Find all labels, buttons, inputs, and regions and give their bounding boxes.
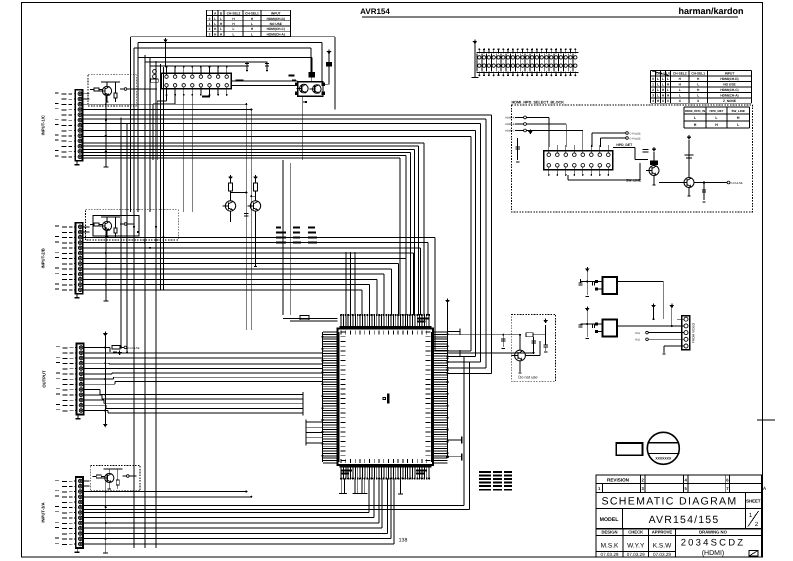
wire bus top-left nest	[131, 37, 335, 110]
title block schematic diagram	[596, 492, 762, 508]
svg-text:HDMI-B: HDMI-B	[505, 123, 514, 126]
capacitors U2	[578, 267, 597, 297]
svg-text:L: L	[657, 83, 659, 87]
svg-text:H: H	[737, 116, 740, 120]
IC U1 top pins	[340, 314, 432, 335]
svg-text:L: L	[657, 77, 659, 81]
junction dots bus	[133, 226, 165, 249]
svg-text:1: 1	[652, 83, 654, 87]
wire P1 upper pin stubs	[83, 89, 340, 115]
svg-text:R51: R51	[635, 332, 640, 335]
IC U1 center mark	[383, 394, 389, 403]
svg-text:07.03.29: 07.03.29	[627, 552, 645, 557]
terminal stubs left of U1	[306, 419, 323, 445]
connector J3 HPD header	[544, 145, 613, 176]
svg-text:2: 2	[209, 27, 211, 31]
wire bus P2 to U1	[83, 227, 448, 352]
svg-text:SCHEMATIC DIAGRAM: SCHEMATIC DIAGRAM	[601, 496, 737, 508]
wire Q5 Q6 bases	[231, 191, 256, 216]
svg-text:L: L	[214, 22, 216, 26]
svg-text:HDMI(CH-C): HDMI(CH-C)	[267, 27, 285, 31]
svg-text:L: L	[679, 94, 681, 98]
wire J2 pin drops	[153, 96, 192, 213]
detect box D2 (P2 input detect)	[86, 210, 179, 240]
svg-text:L: L	[667, 88, 669, 92]
svg-text:CH-SEL1: CH-SEL1	[245, 12, 259, 16]
wire into do-not-use	[448, 334, 521, 336]
svg-text:APPROVE: APPROVE	[652, 530, 673, 535]
header rule	[362, 16, 738, 18]
svg-text:SW_LINE: SW_LINE	[732, 109, 745, 113]
connector P2 INPUT-2/B	[41, 223, 83, 298]
resistor R above Q box	[309, 73, 315, 82]
svg-text:HDMI-C: HDMI-C	[505, 130, 514, 133]
svg-text:REVISION: REVISION	[607, 478, 630, 483]
transistor Q3 HPD	[646, 147, 659, 185]
connector P3 OUTPUT	[42, 344, 84, 419]
svg-text:INPUT-1/C: INPUT-1/C	[40, 115, 45, 135]
wire stubs below U1	[0, 0, 1, 1]
capacitor C HPD2	[702, 181, 706, 202]
wire verticals below U1	[339, 479, 403, 495]
connector P1 INPUT-1/C	[40, 90, 82, 165]
svg-text:W.Y.Y: W.Y.Y	[627, 543, 645, 550]
capacitor C HPD	[515, 138, 519, 162]
svg-text:DESIGN: DESIGN	[601, 530, 617, 535]
svg-text:L: L	[233, 33, 235, 37]
svg-text:C-PULSE: C-PULSE	[630, 132, 642, 135]
svg-text:07.03.29: 07.03.29	[653, 552, 671, 557]
svg-text:SW_LINE: SW_LINE	[626, 179, 642, 183]
svg-text:OUTPUT: OUTPUT	[42, 370, 47, 388]
wire SW_LINE route	[568, 163, 640, 180]
svg-text:L: L	[667, 77, 669, 81]
svg-text:harman/kardon: harman/kardon	[678, 6, 743, 16]
resistor R near J2 right	[202, 81, 244, 97]
capacitor small left of Q box	[289, 75, 295, 77]
connector P4 INPUT-3/A	[41, 477, 83, 552]
wire gnd bus P4	[103, 481, 108, 553]
transistor Q4 HPD	[659, 135, 743, 196]
capacitors U3	[578, 307, 597, 339]
wire mid verticals	[246, 104, 290, 330]
svg-text:HDMI(CH-D): HDMI(CH-D)	[267, 17, 285, 21]
svg-text:INPUT: INPUT	[271, 12, 281, 16]
svg-text:0: 0	[652, 77, 654, 81]
svg-text:AVR154/155: AVR154/155	[649, 514, 720, 526]
transistor array Q1/Q2 box	[295, 82, 324, 96]
power arrow above J2	[163, 38, 168, 67]
svg-text:SHEET: SHEET	[746, 499, 761, 504]
svg-text:L: L	[214, 17, 216, 21]
svg-text:NO USE: NO USE	[723, 83, 735, 87]
svg-text:(HDMI): (HDMI)	[702, 549, 725, 557]
wire gnd bus P2	[103, 227, 108, 301]
do not use dashed box	[511, 315, 555, 382]
wire bus P1 to U1	[83, 115, 491, 375]
svg-text:4: 4	[652, 99, 654, 103]
IC U1 left pins	[323, 332, 346, 463]
transistor Q6	[247, 175, 260, 267]
C-PULSE output flags	[592, 132, 641, 147]
svg-text:HDMI(CH-D): HDMI(CH-D)	[720, 77, 738, 81]
svg-text:L: L	[233, 27, 235, 31]
svg-text:K.S.W: K.S.W	[653, 543, 672, 550]
power arrow Q box	[324, 50, 331, 85]
terminal stubs right of U1	[448, 329, 461, 357]
table truth-table CH-SEL top-left	[207, 10, 291, 36]
svg-text:H: H	[715, 123, 718, 127]
svg-text:138: 138	[399, 538, 408, 544]
svg-text:Do not use: Do not use	[518, 375, 538, 380]
stamp rectangle	[616, 443, 642, 455]
detect box D1 (P1 input detect)	[88, 75, 136, 106]
svg-text:Z_NONE: Z_NONE	[723, 99, 736, 103]
svg-text:C-PULSE: C-PULSE	[630, 137, 642, 140]
wire HPD_DET route	[613, 148, 648, 160]
title block approvals	[596, 529, 762, 557]
connector J4 FROM VIDEO	[677, 316, 696, 350]
svg-text:C-PULSE: C-PULSE	[128, 346, 140, 350]
capacitor HPD mid	[643, 150, 649, 153]
svg-text:INPUT-2/B: INPUT-2/B	[41, 248, 46, 268]
wire U2 to J4	[622, 282, 663, 320]
capacitor left of do-not-use	[501, 334, 505, 349]
capacitor near do-not-use left	[531, 337, 535, 353]
wire Q box bottom	[292, 80, 307, 160]
wire bus P4 to U1	[83, 356, 469, 544]
power arrow JP	[473, 40, 478, 45]
svg-text:L: L	[220, 27, 222, 31]
svg-text:3: 3	[209, 33, 211, 37]
svg-text:H: H	[694, 123, 697, 127]
note text below U1	[479, 471, 512, 491]
svg-text:L: L	[697, 83, 699, 87]
table HPD logic	[684, 107, 750, 128]
svg-text:HPD_DET: HPD_DET	[709, 109, 723, 113]
svg-text:CHECK: CHECK	[628, 530, 643, 535]
svg-text:HDMI_HPD_SELECT_BLOCK: HDMI_HPD_SELECT_BLOCK	[512, 101, 565, 105]
HDMI_HPD_SELECT_BLOCK dashed box	[512, 105, 753, 212]
svg-text:XXXXXXX: XXXXXXX	[655, 457, 672, 461]
wire fillers U1 top-left	[346, 252, 355, 315]
IC U1 corner labels	[341, 318, 429, 475]
svg-text:3: 3	[652, 94, 654, 98]
svg-text:0: 0	[209, 17, 211, 21]
zone tick A	[757, 419, 775, 421]
svg-text:NO USE: NO USE	[270, 22, 282, 26]
svg-text:L: L	[251, 22, 253, 26]
wire pwr bus P3	[103, 332, 108, 428]
stamp circle logo	[647, 432, 679, 464]
svg-text:FROM VIDEO: FROM VIDEO	[692, 322, 696, 343]
wire U1 right rail	[445, 299, 450, 455]
power arrow HPD1	[528, 130, 533, 135]
wire J2 to Q cluster	[231, 81, 297, 86]
transistor Q5	[222, 175, 235, 222]
svg-text:L: L	[697, 94, 699, 98]
svg-text:HDMI-A: HDMI-A	[505, 117, 514, 120]
capacitor C near J2	[151, 70, 158, 83]
title block model row	[596, 509, 762, 529]
wire top horizontals	[138, 58, 312, 73]
svg-text:CH-SEL2: CH-SEL2	[227, 12, 241, 16]
svg-text:HDMI(CH-A): HDMI(CH-A)	[720, 94, 738, 98]
svg-text:DRAWING NO: DRAWING NO	[699, 530, 727, 535]
IC U1 right pins	[426, 332, 448, 463]
IC U2 block	[595, 277, 622, 294]
svg-text:CH-SEL1: CH-SEL1	[691, 72, 705, 76]
svg-text:MODEL: MODEL	[600, 517, 620, 523]
wire bus P3 to U1	[83, 346, 534, 416]
svg-text:L: L	[220, 17, 222, 21]
table truth-table CH-SEL right	[651, 71, 752, 104]
title block revision table	[596, 475, 762, 493]
svg-text:HDMI(CH-C): HDMI(CH-C)	[720, 88, 738, 92]
svg-text:L: L	[657, 94, 659, 98]
svg-text:2: 2	[652, 88, 654, 92]
svg-text:CH-SEL2: CH-SEL2	[673, 72, 687, 76]
svg-text:L: L	[251, 33, 253, 37]
detect box D4 (P4 input detect)	[90, 466, 140, 492]
svg-text:L: L	[662, 77, 664, 81]
svg-text:M.S.K: M.S.K	[601, 543, 619, 550]
IC U1 bottom pins	[340, 459, 432, 480]
svg-text:C-PULSE: C-PULSE	[731, 181, 743, 185]
terminal stubs right-bottom of U1	[446, 430, 462, 460]
svg-text:L: L	[657, 88, 659, 92]
wire gnd bus P1	[103, 94, 108, 167]
wire pair left of U1	[283, 316, 337, 322]
svg-text:1: 1	[209, 22, 211, 26]
svg-text:L: L	[679, 88, 681, 92]
svg-text:R52: R52	[635, 339, 640, 342]
svg-text:HDMI_HPD_IN: HDMI_HPD_IN	[685, 109, 705, 113]
power arrows J4	[651, 304, 674, 328]
wires J4 inputs	[622, 326, 677, 354]
svg-text:INPUT: INPUT	[725, 72, 735, 76]
svg-text:AVR154: AVR154	[360, 7, 390, 16]
HPD input lines	[505, 116, 583, 147]
svg-text:HPD_DET: HPD_DET	[616, 143, 633, 147]
pullup stubs	[245, 62, 269, 72]
IC U1 body	[338, 329, 434, 466]
svg-text:2034SCDZ: 2034SCDZ	[681, 538, 746, 549]
wire U1 left rail	[321, 332, 323, 462]
svg-text:HDMI(CH-A): HDMI(CH-A)	[267, 33, 285, 37]
connector J2 header	[161, 66, 231, 96]
wire bus left verticals	[120, 37, 164, 548]
IC U3 block	[595, 320, 622, 337]
svg-text:07.03.29: 07.03.29	[601, 552, 619, 557]
svg-text:INPUT-3/A: INPUT-3/A	[41, 502, 46, 522]
connector JP flat array	[472, 44, 579, 78]
svg-text:L: L	[662, 83, 664, 87]
note text sel table	[276, 227, 317, 244]
